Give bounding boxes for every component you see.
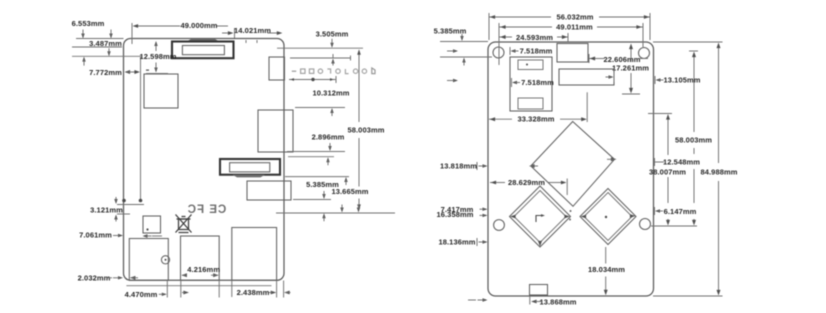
dim line 49.000 (137, 25, 180, 27)
arrow up 2.896 (330, 108, 333, 113)
arrowheads 49.000 (133, 24, 139, 28)
ext line y73.5 (146, 73, 168, 75)
svg-text:18.136mm: 18.136mm (438, 237, 475, 246)
58.003 heads R (692, 52, 696, 58)
bottom-left ext arrow (483, 298, 488, 301)
arrow up 5.385L (326, 157, 329, 162)
ext line y214 (117, 213, 130, 215)
svg-text:84.988mm: 84.988mm (700, 168, 737, 177)
arrow right at wide rect (609, 75, 614, 78)
down arrow x342 (340, 208, 343, 213)
component square U1 (144, 74, 178, 108)
18.034 vline (605, 247, 607, 264)
small diamond left inner (514, 191, 566, 243)
hdmi1 shield top (187, 39, 220, 42)
ext line y199.5 (293, 199, 331, 201)
small diamond right inner (584, 193, 632, 241)
arrow down 3.505 (330, 43, 333, 48)
dim 7.518 second (511, 78, 513, 87)
ext line y204.5 (117, 204, 144, 206)
small diamond right outer (580, 189, 636, 245)
bottom vline x277 (276, 281, 278, 298)
ext line y176.6 (285, 176, 349, 178)
svg-text:38.007mm: 38.007mm (649, 168, 686, 177)
tick x567 down (566, 179, 568, 196)
big diamond antenna (531, 122, 615, 207)
ext line y157 (288, 156, 334, 158)
ext line y213 (276, 212, 395, 214)
svg-text:CE FC: CE FC (187, 204, 227, 216)
tick y51 x694 (689, 50, 698, 52)
svg-text:7.061mm: 7.061mm (79, 231, 112, 240)
dim 7.518 top (509, 47, 511, 55)
bottom vline x167 (166, 281, 168, 298)
arrow down 2.896 (328, 146, 331, 151)
hdmi2 body (220, 159, 280, 175)
arrows right 7.417/16.358 (483, 208, 488, 211)
component rect b2 (232, 228, 277, 281)
ext vline x650 top (649, 13, 651, 40)
svg-text:16.358mm: 16.358mm (436, 210, 473, 219)
svg-text:2.032mm: 2.032mm (78, 273, 111, 282)
heads 33.328 (490, 117, 496, 121)
svg-text:12.548mm: 12.548mm (663, 158, 700, 167)
arrows 4.216 (181, 273, 187, 277)
svg-text:7.518mm: 7.518mm (521, 78, 554, 87)
component top rect (557, 44, 588, 63)
down arrow x358.5 (357, 208, 360, 213)
arrow right y51 (453, 49, 458, 52)
up arrow x464 y57 (462, 58, 465, 63)
dim 12.548 tick (654, 158, 656, 166)
ext line y56.3 (72, 55, 141, 57)
hole bottom-left (494, 220, 505, 231)
dim 13.105 (654, 76, 656, 84)
small ticks below 14.021 (245, 40, 247, 43)
svg-text:2.896mm: 2.896mm (312, 133, 345, 142)
svg-text:6.553mm: 6.553mm (72, 19, 105, 28)
dim 22.606 line (589, 58, 604, 60)
arrow down 5.385R (460, 36, 463, 41)
component wide rect (559, 69, 614, 85)
arrow right 4.470 (162, 293, 167, 296)
dim 49.011 line (499, 26, 552, 28)
svg-text:58.003mm: 58.003mm (675, 136, 712, 145)
svg-text:14.021mm: 14.021mm (234, 26, 271, 35)
heads 28.629 (491, 181, 497, 185)
dot end markers (122, 199, 126, 203)
hdmi2 shield bottom (232, 175, 265, 178)
left board outline (124, 39, 285, 281)
circle in big square (161, 256, 169, 264)
arrow down 5.385L (322, 194, 325, 199)
component big square (129, 239, 168, 281)
svg-text:13.105mm: 13.105mm (663, 76, 700, 85)
svg-text:24.593mm: 24.593mm (516, 33, 553, 42)
ext line y57 left of right board (440, 56, 492, 58)
hdmi1 body (172, 42, 234, 59)
ext line y107.5 (295, 107, 345, 109)
ext vline x499 (498, 23, 500, 65)
bottom vline x219 (218, 281, 220, 298)
dim baseline y285.7 (126, 285, 271, 287)
dim 33.328 line (489, 118, 512, 120)
ext line y48.2 (277, 47, 363, 49)
vline x587 below wide rect (586, 92, 588, 122)
svg-text:58.003mm: 58.003mm (347, 125, 384, 134)
ext tick x132 (131, 23, 133, 44)
ext line y47 (72, 46, 122, 48)
hole bottom-right (640, 219, 651, 230)
arrow right 13.818 (483, 164, 488, 167)
tick y113.5 (648, 113, 672, 115)
58.003 heads (357, 49, 361, 55)
pads row (292, 71, 296, 72)
ext top y42 right (653, 41, 723, 43)
dim 24.593 line (499, 36, 512, 38)
tick and up arrow x333 (332, 54, 334, 58)
component rect b1 (181, 236, 220, 280)
glyph in left diamond (536, 216, 541, 223)
hdmi2 inner (230, 163, 270, 172)
small diamond left arrows (510, 215, 516, 219)
hole top-right (639, 48, 650, 59)
38.007 heads (666, 114, 670, 120)
component rect below hdmi2 (247, 181, 291, 200)
left vertical extension line x140 (140, 57, 142, 199)
svg-text:56.032mm: 56.032mm (556, 13, 593, 22)
component sq2 (143, 216, 161, 233)
dim 13.868 (529, 296, 531, 305)
arrow down x83 to top edge (81, 34, 84, 39)
heads 24.593 (500, 35, 506, 39)
arrow left under sq2 (143, 234, 148, 237)
ext vline x643 (642, 23, 644, 47)
svg-text:13.818mm: 13.818mm (440, 161, 477, 170)
svg-text:49.000mm: 49.000mm (180, 21, 217, 30)
dim 7.772 arrows (125, 70, 131, 74)
heads 49.011 (500, 25, 506, 29)
svg-text:2.438mm: 2.438mm (237, 288, 270, 297)
component edge rect (269, 57, 285, 80)
ext line y38.5 left (76, 38, 124, 40)
big diamond arrows (529, 164, 535, 168)
17.261 vline (630, 46, 632, 62)
arrow down x109 to y56.3 (107, 51, 110, 56)
arrow right 18.136 (483, 240, 488, 243)
bottom vline x181 (180, 281, 182, 298)
arrow right x181 (183, 291, 189, 295)
svg-text:7.772mm: 7.772mm (89, 68, 122, 77)
arrow right 2.032 (118, 276, 123, 279)
bottom vline x232 (231, 281, 233, 298)
arrow right 7.061 (118, 234, 123, 237)
ext tick x234.5 (234, 28, 236, 38)
ext line y151.5 (287, 151, 345, 153)
mark in right diamond (605, 216, 607, 218)
svg-text:3.505mm: 3.505mm (316, 30, 349, 39)
svg-text:17.261mm: 17.261mm (612, 64, 649, 73)
inner rect bottom (518, 98, 543, 109)
right board outline (488, 42, 654, 296)
hole top-left (493, 47, 504, 58)
svg-text:10.312mm: 10.312mm (312, 89, 349, 98)
mark between diamonds (570, 210, 572, 212)
dim 12.598 arrows (154, 41, 157, 46)
ext line y226 holes (651, 225, 697, 227)
dim 14.021 arrows (222, 32, 229, 34)
arrow down x111 to top edge (109, 34, 112, 39)
up arrow x324 (322, 213, 325, 218)
component box outer (510, 57, 552, 111)
ext line y58 pads (290, 57, 351, 59)
svg-text:7.518mm: 7.518mm (520, 47, 553, 56)
svg-text:4.216mm: 4.216mm (187, 265, 220, 274)
component bottom rect (530, 285, 548, 296)
small diamond right arrows (581, 215, 587, 219)
58.003 vline R (693, 53, 695, 132)
dim 56.032 line (489, 16, 551, 18)
arrow up to y214 (114, 215, 117, 220)
heads 56.032 (490, 15, 496, 19)
svg-text:33.328mm: 33.328mm (517, 115, 554, 124)
84.988 heads (717, 43, 721, 49)
arrow down to y204.5 (114, 199, 117, 204)
component rect mid-right (258, 110, 293, 152)
84.988 vline (718, 44, 720, 163)
svg-text:13.665mm: 13.665mm (331, 187, 368, 196)
ext line y41.5 left of right board (440, 41, 488, 43)
hdmi1 inner (182, 46, 224, 55)
dim 6.147 (654, 207, 656, 215)
bottom vline x283.6 (283, 281, 285, 298)
WEEE bin symbol (176, 215, 192, 233)
arrow up 13.665 (344, 177, 347, 182)
svg-text:13.868mm: 13.868mm (539, 297, 576, 306)
svg-text:3.121mm: 3.121mm (90, 206, 123, 215)
dim line y79.5 under pads (289, 79, 336, 81)
ext bottom y296 right (653, 295, 723, 297)
dim 28.629 line (490, 182, 505, 184)
small diamond left outer (510, 186, 571, 247)
svg-text:3.487mm: 3.487mm (89, 39, 122, 48)
arrows 2.438 inward (271, 291, 277, 295)
58.003 vline (358, 52, 360, 123)
38.007 vline (667, 116, 669, 155)
svg-text:4.470mm: 4.470mm (125, 290, 158, 299)
svg-text:18.034mm: 18.034mm (588, 265, 625, 274)
ext vline x489 top (488, 13, 490, 40)
svg-text:6.147mm: 6.147mm (664, 207, 697, 216)
inner rect top (518, 60, 543, 70)
arrow up x84 to y56.5 (82, 57, 85, 62)
arrow right y80.5 (453, 79, 458, 82)
svg-text:12.598mm: 12.598mm (139, 52, 176, 61)
svg-text:49.011mm: 49.011mm (556, 23, 593, 32)
